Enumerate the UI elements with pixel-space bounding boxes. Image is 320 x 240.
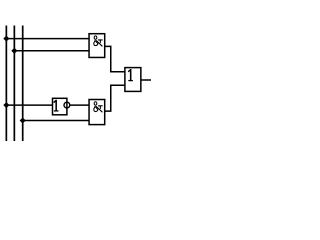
junction node on rail 1 / AND U1 input A wire [3,36,9,42]
junction node on rail 3 / AND U3 input B wire [20,117,26,123]
junction node on rail 2 / AND U1 input B wire [11,48,17,54]
label "1" of OR gate U4 [128,69,131,72]
wire from inverter U2 output bubble to AND gate U3 input A [70,104,89,106]
AND gate U3 (IEC box) [89,100,105,125]
wire from rail 3 to AND gate U3 input B [23,120,89,122]
junction node on rail 1 / inverter wire [3,102,9,108]
wire from AND gate U1 output down to OR gate U4 input A [105,46,125,71]
label "1" of inverter U2 [53,100,56,103]
label "&" of AND gate U3 [94,102,102,112]
inverter U2 (IEC box labelled 1 with output bubble) [53,98,70,115]
wire from rail 1 to inverter U2 input [6,104,52,106]
OR gate U4 (IEC box labelled 1) [125,68,141,92]
wire rail bus line 1 (vertical) [5,26,7,142]
wire from rail 2 to AND gate U1 input B [14,50,89,52]
wire rail bus line 2 (vertical) [13,26,15,142]
wire from rail 1 to AND gate U1 input A [6,38,89,40]
wire rail bus line 3 (vertical) [22,26,24,142]
AND gate U1 (IEC box) [89,34,105,58]
inverter U2 output negation bubble [64,102,70,108]
label "&" of AND gate U1 [94,36,102,46]
wire from AND gate U3 output up to OR gate U4 input B [105,85,125,111]
wire OR gate U4 output [141,79,151,81]
